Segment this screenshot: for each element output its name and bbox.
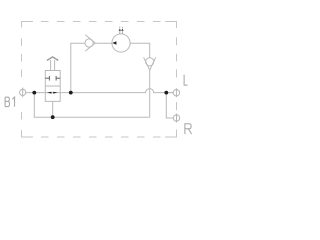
wire pump outlet to right corner down to CV2: [130, 43, 150, 58]
wire node A down to bottom rail: [34, 93, 149, 118]
node C junction dot: [164, 91, 168, 95]
enclosure corner tick bottom-left: [22, 130, 34, 137]
node B junction dot: [69, 91, 73, 95]
pump U1 vent arrow tips: [119, 27, 124, 31]
label R: [185, 124, 192, 134]
valve V1 body: [45, 71, 60, 102]
wire B1 port through valve to node B: [26, 92, 71, 94]
wire node C to L port: [166, 92, 173, 94]
enclosure corner tick top-right: [165, 22, 177, 29]
pump U1 circle: [112, 34, 130, 52]
enclosure dashed boundary right: [176, 38, 178, 111]
enclosure dashed boundary top: [41, 21, 177, 23]
valve V1 open position flow arrows: [47, 92, 57, 94]
node D junction dot on bottom rail: [51, 115, 55, 119]
node A junction dot: [32, 91, 36, 95]
check valve CV2 seat: [144, 57, 156, 70]
wire CV2 seat down to bottom rail corner: [149, 70, 151, 117]
label L: [184, 75, 188, 86]
wire node B riser to top line: [71, 43, 85, 92]
wire check valve CV1 to pump: [95, 42, 112, 44]
wire node C down to R port: [166, 93, 173, 118]
wire valve bottom stub: [52, 101, 54, 117]
enclosure corner tick top-left: [22, 22, 34, 28]
pump U1 vent stem lines: [120, 30, 123, 34]
port B1: [20, 88, 26, 98]
enclosure dashed boundary left: [21, 39, 23, 120]
port L: [173, 88, 179, 97]
check valve CV1 seat: [85, 35, 95, 51]
valve V1 actuator stem: [51, 60, 55, 71]
pump U1 flow triangle: [112, 41, 116, 45]
enclosure dashed boundary bottom: [41, 136, 177, 138]
label B1: [5, 97, 15, 107]
wire node B to crossover hop and node C: [71, 89, 173, 93]
valve V1 closed position marks: [45, 76, 60, 81]
enclosure corner tick bottom-right: [165, 130, 177, 138]
valve V1 actuator arrowhead: [47, 57, 58, 61]
port R: [173, 114, 179, 123]
check valve CV1 ball: [85, 39, 93, 47]
check valve CV2 ball: [146, 58, 154, 66]
